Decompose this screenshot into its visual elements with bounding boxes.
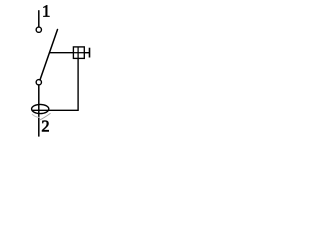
faint under-ellipse arc artifact <box>32 114 40 117</box>
branch wire corner up to box <box>77 58 79 111</box>
wire from switch lower contact down through fuse to terminal 2 <box>38 85 40 137</box>
right terminal end bar <box>89 48 91 58</box>
switch lever (open blade) <box>40 30 58 80</box>
fuse chord / branch wire to the right <box>32 109 78 111</box>
terminal label 2 <box>42 121 49 132</box>
switch lower contact circle <box>36 80 41 85</box>
switch upper contact circle <box>36 27 41 32</box>
box inner vertical line <box>77 47 79 59</box>
box right stub wire <box>84 52 89 54</box>
fuse ellipse <box>32 104 49 113</box>
wire from terminal 1 to switch upper contact <box>38 10 40 27</box>
box inner horizontal line <box>73 52 84 54</box>
wire from switch blade to box <box>49 52 73 54</box>
box component outline <box>73 47 84 59</box>
terminal label 1 <box>43 5 49 16</box>
